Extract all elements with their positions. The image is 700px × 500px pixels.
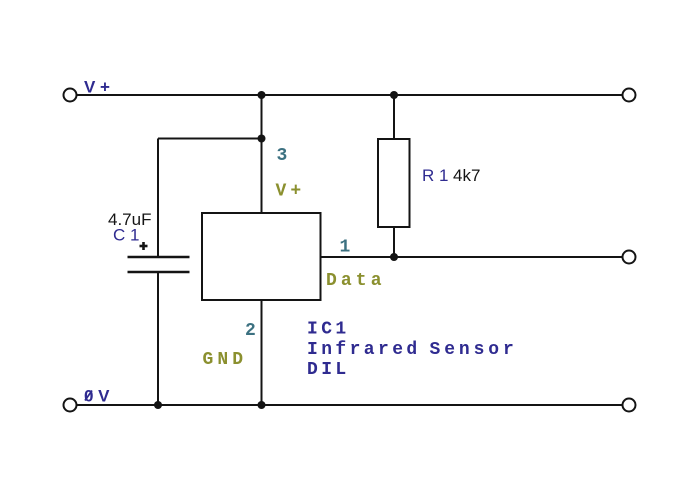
wire resistor top lead <box>393 95 395 139</box>
junction top rail / pin3 <box>258 91 266 99</box>
wire bottom 0V rail <box>77 404 623 406</box>
wire capacitor bottom lead <box>157 272 159 405</box>
terminal top-right <box>623 89 636 102</box>
terminal top-left <box>64 89 77 102</box>
svg-text:4k7: 4k7 <box>453 166 480 185</box>
terminal data-right <box>623 251 636 264</box>
capacitor C1 top plate <box>128 256 190 258</box>
junction capacitor branch <box>258 135 266 143</box>
wire IC pin3 vertical <box>261 95 263 213</box>
svg-text:C 1: C 1 <box>113 226 139 245</box>
resistor R1 body <box>378 139 410 227</box>
svg-text:3: 3 <box>277 146 288 166</box>
svg-text:Sensor: Sensor <box>430 340 518 360</box>
junction bottom rail / capacitor <box>154 401 162 409</box>
svg-text:Data: Data <box>326 271 386 291</box>
wire capacitor branch horizontal <box>158 138 262 140</box>
svg-text:V +: V + <box>84 78 110 97</box>
capacitor C1 polarity plus <box>140 242 148 250</box>
junction bottom rail / pin2 <box>258 401 266 409</box>
svg-text:Infrared: Infrared <box>307 340 421 360</box>
description Infrared Sensor <box>307 340 518 360</box>
wire Data line <box>321 256 623 258</box>
wire top V+ rail <box>77 94 623 96</box>
wire IC pin2 vertical <box>261 300 263 405</box>
svg-text:R 1: R 1 <box>422 166 448 185</box>
svg-text:IC1: IC1 <box>307 320 350 340</box>
terminal bottom-left <box>64 399 77 412</box>
slash of 0 in 0V <box>85 391 92 401</box>
wire capacitor top lead <box>157 139 159 258</box>
svg-text:DIL: DIL <box>307 360 350 380</box>
wire resistor bottom lead <box>393 227 395 257</box>
capacitor C1 bottom plate <box>128 271 190 273</box>
terminal bottom-right <box>623 399 636 412</box>
junction data / resistor <box>390 253 398 261</box>
IC U1 body <box>202 213 321 300</box>
svg-text:V+: V+ <box>276 182 306 202</box>
svg-text:2: 2 <box>245 321 256 341</box>
svg-text:1: 1 <box>340 238 351 258</box>
svg-text:GND: GND <box>203 350 248 370</box>
junction top rail / resistor <box>390 91 398 99</box>
